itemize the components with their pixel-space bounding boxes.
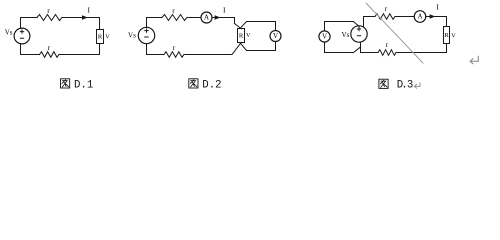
svg-text:V: V: [105, 33, 110, 40]
paragraph return mark after 图 D.3: [414, 83, 420, 88]
wire: top segment to right corner and down to R: [62, 18, 100, 30]
paragraph return mark (right of D.3): [470, 56, 478, 63]
source Vs (D.1): [14, 28, 30, 44]
wire: from R down to bottom wire, bottom-right segment: [396, 44, 447, 53]
voltmeter V (left, D.3): [319, 31, 330, 42]
svg-text:V: V: [246, 32, 251, 39]
current arrow I (D.3): [430, 14, 436, 19]
wire: source top to top wire: [364, 17, 376, 28]
wire from ammeter to corner and down to R: [426, 17, 447, 27]
wire: from voltmeter bottom back to box bottom: [240, 42, 276, 51]
svg-text:Vs: Vs: [342, 31, 350, 39]
voltmeter V (D.2): [270, 31, 281, 42]
svg-text:A: A: [204, 14, 209, 22]
svg-text:R: R: [444, 32, 449, 39]
source Vs (D.3): [351, 26, 367, 42]
wire: diagonal from box bottom to bottom wire: [232, 42, 241, 54]
svg-text:I: I: [88, 5, 91, 14]
svg-text:r: r: [172, 6, 175, 15]
resistor r (bottom, D.1): [40, 52, 59, 58]
resistor r (top, D.1): [37, 15, 62, 21]
wire: diagonal into R box top: [235, 24, 242, 29]
figure caption 图 D.1: [61, 79, 70, 88]
svg-text:V: V: [451, 32, 456, 39]
svg-text:r: r: [48, 43, 51, 52]
resistor r (top, D.3): [375, 14, 395, 20]
svg-text:D.2: D.2: [202, 79, 221, 91]
svg-text:V: V: [322, 33, 327, 41]
resistor R load box (D.2): [238, 29, 245, 43]
strikethrough slash over D.3: [366, 3, 423, 63]
svg-text:D.1: D.1: [74, 79, 93, 91]
wire to ammeter: [187, 17, 201, 19]
resistor r (top, D.2): [162, 15, 187, 21]
wire: voltmeter top loop to source: [325, 22, 360, 31]
current arrow I (D.2): [215, 15, 221, 20]
ammeter A (D.2): [201, 12, 212, 23]
ammeter A (D.3): [414, 11, 426, 23]
svg-text:V: V: [273, 32, 278, 40]
figure caption 图 D.3: [379, 79, 388, 88]
svg-text:A: A: [417, 13, 422, 21]
resistor R load box (D.1): [97, 30, 104, 44]
source Vs (D.2): [138, 27, 154, 43]
wire: diagonal from box top to voltmeter branch, across and down: [240, 22, 276, 31]
figure caption 图 D.2: [189, 79, 198, 88]
svg-text:r: r: [386, 40, 389, 49]
svg-text:I: I: [223, 5, 226, 14]
wire: from R down to bottom wire, bottom-right segment: [59, 44, 100, 55]
svg-text:R: R: [98, 34, 103, 41]
current arrow I (D.1): [82, 15, 88, 20]
resistor r (bottom, D.2): [164, 52, 184, 58]
wire: voltmeter bottom loop to source: [325, 42, 361, 52]
wire: bottom-right segment: [184, 54, 232, 56]
wire: bottom-left segment to source: [361, 42, 379, 53]
svg-text:r: r: [173, 43, 176, 52]
svg-text:r: r: [47, 6, 50, 15]
resistor r (bottom, D.3): [378, 50, 396, 56]
svg-text:Vs: Vs: [5, 28, 13, 36]
wire: top-left vertical and top-left segment: [21, 18, 38, 29]
svg-text:r: r: [385, 4, 388, 13]
svg-text:I: I: [436, 3, 439, 12]
wire: bottom-left segment and vertical to source: [147, 44, 165, 55]
wire from ammeter to corner: [212, 18, 235, 24]
svg-text:R: R: [239, 32, 244, 39]
svg-text:Vs: Vs: [128, 31, 136, 39]
wire: top-left vertical and top-left segment: [147, 18, 163, 28]
resistor R load box (D.3): [444, 27, 450, 44]
wire: bottom-left segment and vertical to source: [21, 44, 40, 55]
svg-text:3: 3: [407, 80, 413, 92]
wire to ammeter: [395, 16, 414, 18]
